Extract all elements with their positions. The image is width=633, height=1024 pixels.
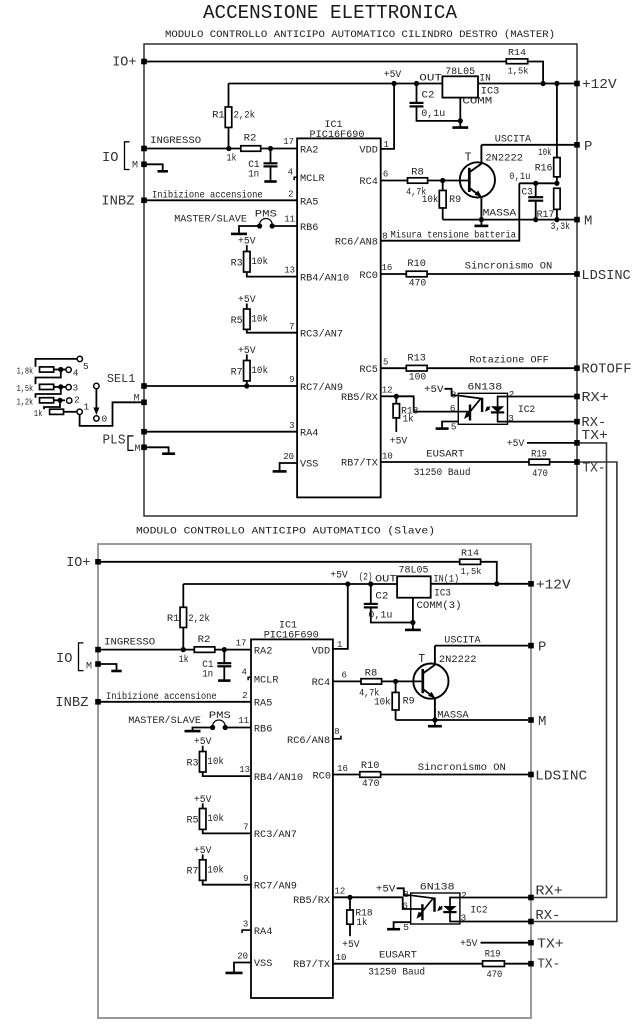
terminal PLS M [141, 445, 147, 451]
terminal RX+ (slave) [528, 895, 534, 901]
svg-text:10k: 10k [374, 697, 391, 708]
ground PMS (master) [231, 233, 247, 236]
svg-text:R2: R2 [198, 634, 211, 645]
svg-text:Inibizione accensione: Inibizione accensione [106, 691, 217, 703]
terminal RX+ (master) [574, 394, 580, 400]
svg-text:R1: R1 [167, 613, 180, 624]
svg-text:VSS: VSS [254, 959, 272, 970]
svg-text:1n: 1n [248, 169, 259, 180]
wire LDSINC row pin 16 (slave) [333, 774, 360, 776]
pin 8 stub RC6/AN8 (slave) [333, 736, 341, 739]
svg-text:RC5: RC5 [359, 365, 377, 376]
slave module box [98, 544, 531, 1018]
node COMM/C2 junction [458, 118, 463, 123]
svg-text:1n: 1n [202, 669, 213, 680]
svg-text:RC7/AN9: RC7/AN9 [300, 382, 343, 394]
wire R5 to pin 7 [247, 329, 297, 332]
svg-text:2: 2 [509, 389, 515, 400]
svg-text:RA4: RA4 [254, 927, 272, 938]
resistor R19 470 (slave) [483, 961, 505, 967]
node R9 top junction [440, 178, 445, 183]
svg-text:R17: R17 [537, 209, 555, 220]
svg-text:10k: 10k [422, 194, 439, 205]
bracket PLS [128, 436, 134, 451]
wire PMS to pin 11 RB6 (slave) [225, 727, 251, 729]
svg-text:USCITA: USCITA [444, 635, 481, 647]
svg-text:+5V: +5V [460, 938, 478, 949]
svg-text:1,8k: 1,8k [17, 366, 34, 377]
svg-text:INGRESSO: INGRESSO [150, 135, 201, 147]
wire COMM to ground [459, 98, 461, 127]
svg-text:2: 2 [242, 691, 247, 701]
svg-text:4: 4 [241, 667, 246, 677]
terminal IO+ (slave) [95, 559, 101, 565]
svg-text:0: 0 [102, 414, 108, 425]
wire SEL1 row to pin 9 [144, 385, 297, 387]
resistor R10 470 (master) [406, 271, 427, 277]
svg-text:OUT: OUT [419, 74, 442, 85]
svg-text:R9: R9 [449, 194, 461, 205]
svg-text:6N138: 6N138 [420, 881, 455, 893]
svg-text:IO+: IO+ [66, 555, 90, 571]
wire ladder zig 1 [36, 370, 61, 385]
optocoupler IC2 6N138 box [411, 893, 460, 924]
resistor 1k (ladder) [50, 409, 64, 414]
terminal LDSINC (master) [574, 271, 580, 277]
contact 2 [67, 398, 72, 403]
terminal SEL M [141, 400, 147, 406]
wire VSS pin 20 to ground (master) [280, 463, 298, 470]
svg-text:+5V: +5V [424, 384, 444, 395]
svg-text:M: M [134, 444, 140, 455]
wire PMS left contact to ground (slave) [193, 728, 213, 731]
svg-text:1k: 1k [403, 413, 414, 424]
svg-text:TX-: TX- [537, 957, 560, 973]
master module box [144, 44, 577, 516]
svg-text:MASSA: MASSA [437, 709, 469, 721]
resistor R8 4,7k (slave) [361, 679, 382, 684]
svg-text:20: 20 [237, 951, 248, 961]
svg-text:RB6: RB6 [300, 223, 318, 234]
svg-text:11: 11 [238, 716, 249, 726]
resistor R7 10k (master) [246, 354, 248, 360]
regulator IC3 78L05 (slave) [397, 576, 431, 597]
contact 1 [77, 409, 82, 414]
svg-text:+5V: +5V [194, 736, 212, 747]
svg-text:INBZ: INBZ [101, 194, 134, 210]
resistor R5 10k [246, 304, 248, 310]
svg-text:10k: 10k [538, 147, 551, 158]
svg-text:+5V: +5V [238, 294, 256, 305]
svg-text:RB5/RX: RB5/RX [341, 392, 378, 404]
terminal +12V (master) [574, 81, 580, 87]
node R1 bottom junction (slave) [181, 647, 186, 652]
svg-text:7: 7 [289, 322, 294, 332]
node VDD riser junction (slave) [345, 581, 350, 586]
wire RB5/RX pin 12 [381, 395, 397, 397]
wire R3 to pin 13 [203, 772, 251, 776]
svg-text:R5: R5 [187, 815, 199, 826]
opto internal light arrow [438, 906, 442, 910]
svg-text:TX+: TX+ [581, 428, 608, 444]
wire ROTOFF row pin 5 [381, 367, 407, 369]
switch PMS (slave) [213, 720, 226, 726]
capacitor C1 1n (master) [270, 149, 272, 163]
svg-text:6: 6 [342, 671, 347, 681]
svg-text:8: 8 [334, 727, 339, 737]
resistor 1,8k [40, 367, 54, 372]
pin 6 RC4 wire to R8 (slave) [333, 680, 361, 682]
wire IN to +12V terminal [478, 83, 577, 85]
terminal ROTOFF (master) [574, 365, 580, 371]
ground MASSA (slave) [434, 720, 436, 725]
svg-text:RC6/AN8: RC6/AN8 [287, 735, 330, 747]
svg-text:+5V: +5V [330, 569, 348, 580]
svg-text:MCLR: MCLR [254, 675, 279, 686]
svg-text:3: 3 [73, 383, 79, 394]
node C1 junction (slave) [222, 647, 227, 652]
wire divider to RC6/AN8 pin 8 (Misura) [381, 183, 520, 240]
ground COMM (master) [452, 126, 468, 129]
svg-text:(2): (2) [359, 572, 373, 584]
svg-text:6: 6 [450, 403, 456, 414]
svg-text:1,5k: 1,5k [461, 566, 482, 577]
svg-text:8: 8 [382, 231, 387, 241]
resistor 1,5k [40, 384, 54, 389]
resistor R1 2,2k (slave) [182, 584, 184, 607]
wire INGRESSO row to pin 17 [144, 148, 297, 150]
node R18 junction (master) [394, 394, 399, 399]
svg-text:RB6: RB6 [254, 724, 272, 735]
bracket IO (master) [125, 142, 130, 170]
svg-text:T: T [418, 653, 425, 666]
svg-text:470: 470 [532, 468, 548, 479]
svg-text:31250 Baud: 31250 Baud [414, 467, 471, 479]
terminal RX- (slave) [528, 919, 534, 925]
svg-text:R10: R10 [361, 760, 380, 771]
svg-text:MCLR: MCLR [300, 174, 325, 185]
svg-text:SEL1: SEL1 [107, 373, 136, 386]
ground C1 (slave) [218, 679, 230, 682]
svg-text:R7: R7 [231, 366, 243, 377]
wire R16 to divider node [556, 177, 558, 183]
contact 0 [94, 416, 99, 421]
contact 3 [66, 385, 71, 390]
terminal LDSINC (slave) [528, 772, 534, 778]
wire R19 to TX- terminal (slave) [504, 963, 531, 965]
resistor R8 4,7k [408, 178, 428, 183]
svg-text:17: 17 [236, 638, 247, 648]
ground C1 (master) [264, 180, 276, 183]
svg-text:6: 6 [383, 170, 388, 180]
wire IO+ to R14 [144, 61, 506, 63]
svg-text:1,2k: 1,2k [17, 396, 34, 407]
svg-text:INBZ: INBZ [55, 695, 88, 711]
node ladder 2 [57, 398, 62, 403]
wire R9 to massa line [442, 208, 444, 220]
svg-text:13: 13 [284, 266, 295, 276]
wire RX- row (slave) [460, 921, 531, 923]
svg-text:4: 4 [288, 167, 293, 177]
terminal P (slave) [528, 643, 534, 649]
svg-text:10k: 10k [207, 864, 224, 875]
resistor R9 10k [442, 181, 444, 191]
svg-text:13: 13 [239, 765, 250, 775]
terminal INGRESSO (slave) [95, 647, 101, 653]
wire R10 to LDSINC terminal [427, 273, 577, 275]
node C3 top junction [533, 181, 538, 186]
resistor R13 100 [406, 365, 427, 371]
svg-text:10k: 10k [251, 313, 268, 324]
svg-text:0,1u: 0,1u [421, 108, 445, 119]
wire R13 to ROTOFF terminal [427, 367, 577, 369]
opto internal LED diode [450, 898, 460, 907]
svg-text:5: 5 [403, 922, 409, 933]
svg-text:3: 3 [289, 421, 294, 431]
svg-text:R5: R5 [231, 315, 243, 326]
pic IC1 box (master) [297, 138, 381, 497]
svg-text:Sincronismo ON: Sincronismo ON [465, 260, 553, 272]
wire RB5 to opto pin 6 [396, 396, 458, 411]
capacitor C1 1n (slave) [223, 650, 225, 663]
terminal IO M (slave) [95, 661, 101, 667]
wire INBZ row to pin 2 [144, 199, 297, 201]
terminal M (master) [574, 217, 580, 223]
svg-text:R14: R14 [461, 548, 479, 559]
svg-text:1k: 1k [179, 654, 189, 665]
pic IC1 box (slave) [251, 639, 333, 998]
capacitor C2 (master) 0,1u [414, 81, 419, 86]
svg-text:1k: 1k [34, 408, 43, 419]
wire VSS pin 20 to ground (slave) [234, 963, 251, 972]
resistor R14 (master) 1,5k [506, 59, 527, 64]
svg-text:R9: R9 [403, 695, 415, 706]
opto internal LED diode [498, 397, 508, 407]
resistor R7 10k [202, 854, 204, 859]
wire PMS left contact to ground [239, 226, 260, 233]
selector wiper contact [94, 383, 99, 388]
wire VDD pin1 riser [381, 84, 394, 149]
node R18 junction (slave) [347, 895, 352, 900]
svg-text:Inibizione accensione: Inibizione accensione [152, 189, 263, 201]
wire EUSART pin 10 row [381, 461, 529, 463]
svg-text:R8: R8 [365, 667, 378, 678]
wire TX+ row (slave) [481, 942, 532, 944]
svg-text:5: 5 [83, 361, 89, 372]
node R14 junction (slave) [494, 581, 499, 586]
svg-text:M: M [86, 662, 92, 673]
svg-text:7: 7 [243, 823, 248, 833]
terminal M (slave) [528, 717, 534, 723]
svg-text:MASTER/SLAVE: MASTER/SLAVE [174, 214, 247, 226]
svg-text:R7: R7 [187, 866, 199, 877]
svg-text:VSS: VSS [300, 460, 318, 471]
wire contact5 to ladder [36, 359, 78, 367]
wire LDSINC row pin 16 [381, 273, 407, 275]
svg-text:9: 9 [243, 874, 248, 884]
wire R9 to massa line (slave) [395, 710, 397, 720]
wire +5V rail (master) [229, 83, 443, 85]
svg-text:VDD: VDD [312, 646, 330, 657]
bracket IO (slave) [79, 643, 84, 671]
svg-text:R1: R1 [212, 109, 225, 120]
svg-text:R14: R14 [508, 47, 526, 58]
ground MASSA (master) [480, 220, 482, 226]
node R9 top junction (slave) [393, 679, 398, 684]
wire IO+ to R14 (slave) [98, 561, 460, 563]
svg-text:RA5: RA5 [300, 197, 318, 208]
svg-text:Rotazione OFF: Rotazione OFF [469, 354, 548, 366]
regulator IC3 78L05 (master) [442, 76, 478, 97]
svg-text:78L05: 78L05 [445, 66, 475, 78]
node C3 bottom junction [533, 217, 538, 222]
svg-text:+5V: +5V [342, 939, 360, 950]
terminal +12V (slave) [528, 581, 534, 587]
svg-text:EUSART: EUSART [379, 951, 417, 962]
svg-text:PIC16F690: PIC16F690 [264, 629, 319, 641]
svg-text:RA2: RA2 [300, 146, 318, 157]
terminal IO+ (master) [141, 59, 147, 65]
node R14/+12V junction [541, 81, 546, 86]
wire interconnect TX+ master to RX+ slave [534, 443, 607, 898]
svg-text:RB7/TX: RB7/TX [293, 959, 330, 971]
svg-text:2,2k: 2,2k [188, 613, 210, 624]
wire ladder zig 2 [36, 387, 61, 398]
svg-text:T: T [465, 152, 472, 165]
transistor T 2N2222 (master) [460, 162, 495, 197]
ground opto pin 5 (master) [442, 422, 458, 428]
svg-text:+5V: +5V [238, 345, 256, 356]
resistor R1 2,2k (master) [228, 84, 230, 108]
terminal PLS RA4 [141, 429, 147, 435]
wire INGRESSO row to pin 17 (slave) [98, 649, 251, 651]
svg-text:+5V: +5V [390, 436, 408, 447]
svg-text:C2: C2 [422, 90, 435, 101]
node emitter/massa junction [479, 217, 484, 222]
resistor R18 1k (slave) [349, 897, 351, 910]
svg-text:RB4/AN10: RB4/AN10 [300, 273, 349, 285]
svg-text:R10: R10 [407, 258, 426, 269]
svg-text:ACCENSIONE ELETTRONICA: ACCENSIONE ELETTRONICA [203, 2, 457, 24]
node ladder 3 [58, 384, 63, 389]
node COMM/C2 junction (slave) [410, 620, 415, 625]
svg-text:PIC16F690: PIC16F690 [310, 129, 365, 141]
resistor R14 (slave) 1,5k [460, 559, 481, 564]
wire RX+ row (master) [508, 396, 578, 398]
svg-text:10: 10 [382, 452, 393, 462]
svg-text:6: 6 [402, 901, 408, 912]
svg-text:78L05: 78L05 [399, 565, 429, 577]
wire RX+ row (slave) [460, 897, 531, 899]
wire TX+ row (master) [527, 442, 577, 444]
wire PLS row to pin 3 [144, 431, 297, 433]
opto internal phototransistor [421, 904, 423, 920]
resistor 1,2k [40, 398, 54, 403]
svg-text:+5V: +5V [376, 884, 396, 895]
wire RB5/RX pin 12 (slave) [333, 896, 350, 898]
svg-text:RC6/AN8: RC6/AN8 [335, 236, 378, 248]
svg-text:+5V: +5V [194, 845, 212, 856]
svg-text:ROTOFF: ROTOFF [581, 362, 631, 378]
svg-text:12: 12 [334, 886, 345, 896]
svg-text:RA2: RA2 [254, 646, 272, 657]
svg-text:C3: C3 [522, 187, 533, 198]
wire PMS to pin 11 RB6 [272, 225, 297, 227]
svg-text:17: 17 [283, 137, 294, 147]
wire VDD pin1 riser (slave) [333, 584, 348, 649]
wire R8 to base (slave) [382, 680, 422, 682]
pin 4 MCLR stub [294, 177, 297, 180]
svg-text:RC3/AN7: RC3/AN7 [254, 829, 297, 841]
svg-text:IC2: IC2 [518, 404, 535, 416]
resistor R19 470 (master) [529, 459, 550, 465]
wire R16 branch from +12V rail [556, 84, 558, 158]
ground PLS M [144, 447, 169, 453]
ground VSS (master) [273, 470, 287, 473]
node ladder 4 [58, 367, 63, 372]
wire R19 to TX- terminal [550, 461, 577, 463]
svg-text:RC3/AN7: RC3/AN7 [300, 329, 343, 341]
svg-text:USCITA: USCITA [495, 134, 532, 146]
svg-text:IO: IO [56, 651, 73, 667]
svg-text:6N138: 6N138 [467, 382, 502, 394]
svg-text:Sincronismo ON: Sincronismo ON [418, 762, 506, 774]
svg-text:16: 16 [337, 764, 348, 774]
wire +5V rail (slave) [183, 583, 397, 585]
svg-text:2N2222: 2N2222 [439, 654, 477, 666]
ground VSS (slave) [226, 972, 243, 975]
opto internal light arrow [486, 407, 490, 411]
terminal INGRESSO (master) [141, 146, 147, 152]
selector wiper arrow [95, 389, 97, 411]
svg-text:2: 2 [461, 890, 467, 901]
resistor R2 1k (master) [241, 146, 261, 152]
svg-text:IO: IO [102, 150, 119, 166]
svg-text:5: 5 [451, 422, 457, 433]
pin 3 RA4 stub (slave) [242, 930, 251, 933]
svg-text:COMM: COMM [462, 97, 492, 108]
capacitor C2 (slave) 0,1u [368, 581, 373, 586]
resistor R5 10k [202, 803, 204, 808]
svg-text:RX+: RX+ [535, 883, 562, 899]
svg-text:R8: R8 [411, 166, 424, 177]
terminal INBZ (slave) [95, 699, 101, 705]
svg-text:R3: R3 [187, 757, 199, 768]
svg-text:1,5k: 1,5k [508, 66, 529, 77]
wire MASSA / M line (slave) [396, 719, 531, 721]
svg-text:RB7/TX: RB7/TX [341, 458, 378, 470]
terminal TX+ (master) [574, 440, 580, 446]
wire R3 to pin 13 [247, 272, 297, 277]
svg-text:2,2k: 2,2k [234, 109, 256, 120]
svg-text:R16: R16 [535, 162, 553, 173]
svg-text:LDSINC: LDSINC [535, 768, 587, 784]
resistor R9 10k (slave) [395, 681, 397, 692]
svg-text:EUSART: EUSART [426, 450, 464, 461]
svg-text:M: M [133, 394, 139, 405]
node R16 branch junction [554, 81, 559, 86]
terminal P (master) [574, 142, 580, 148]
svg-text:1: 1 [84, 402, 90, 413]
pin 6 RC4 wire to R8 [381, 180, 408, 182]
svg-text:10: 10 [336, 953, 347, 963]
wire R8 to base [428, 180, 468, 182]
wire R14 to +12V rail [528, 62, 543, 84]
wire R14 to +12V rail (slave) [481, 562, 497, 584]
svg-text:RC0: RC0 [313, 772, 332, 783]
svg-text:RC4: RC4 [312, 678, 330, 689]
ground PMS (slave) [185, 730, 201, 733]
